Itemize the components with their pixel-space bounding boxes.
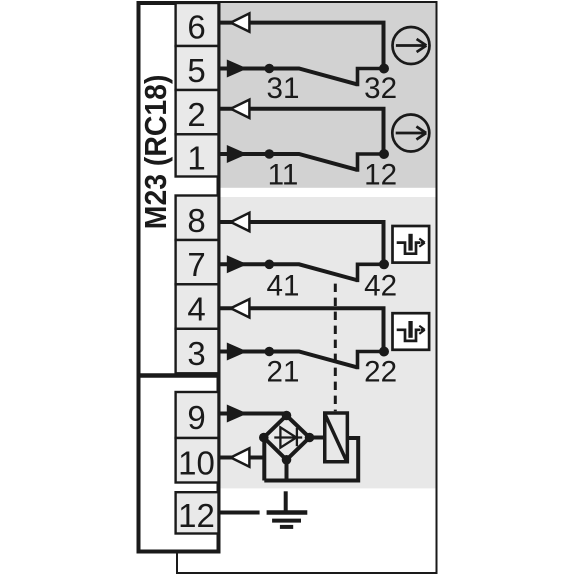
input arrow pin 7	[227, 255, 248, 273]
wire left branch pin10 to bottom rail	[262, 438, 266, 481]
pin box 4	[176, 284, 219, 329]
input arrow pin 9	[227, 405, 248, 423]
junction dot 32	[379, 64, 389, 74]
svg-text:M23 (RC18): M23 (RC18)	[138, 75, 173, 230]
svg-text:12: 12	[364, 159, 397, 192]
svg-text:31: 31	[267, 72, 300, 105]
wire rectifier bottom to rail	[285, 460, 289, 481]
guard-lock monitored symbol (upper pulse box)	[393, 226, 430, 263]
input arrow pin 3	[227, 343, 248, 361]
wire rectifier right to solenoid	[310, 436, 325, 440]
bottom rail to solenoid return	[264, 438, 358, 481]
wire pin6 feed to contact 32 terminal	[221, 23, 384, 69]
input arrow pin 1	[227, 145, 248, 163]
svg-text:6: 6	[187, 9, 205, 46]
pivot dot 21	[265, 347, 275, 357]
pin box 5	[176, 46, 219, 90]
pin box 2	[176, 90, 219, 134]
svg-text:5: 5	[187, 52, 205, 89]
actuator symbol circle-arrow (top)	[393, 27, 430, 64]
pin box 3	[176, 329, 219, 374]
pivot dot 41	[265, 260, 275, 270]
fixed terminal contact 42	[358, 264, 384, 282]
output arrow pin 6	[231, 13, 250, 31]
fixed terminal contact 22	[358, 352, 384, 370]
svg-text:1: 1	[187, 139, 205, 176]
junction dot rectifier left	[259, 433, 269, 443]
junction dot rectifier bottom	[282, 455, 292, 465]
junction dot 42	[379, 259, 389, 269]
wire pin8 feed to contact 42 terminal	[221, 222, 384, 264]
wire pin9 to rectifier	[221, 412, 287, 416]
rectifier diamond	[264, 416, 310, 460]
pin box 8	[176, 196, 219, 241]
guard-lock monitored symbol (lower pulse box)	[393, 313, 430, 350]
input arrow pin 5	[227, 60, 248, 78]
wire pin7 with moving blade 41-42	[221, 264, 357, 280]
svg-text:11: 11	[268, 159, 299, 192]
wire pin2 feed to contact 12 terminal	[221, 109, 384, 154]
wire pin3 with moving blade 21-22	[221, 352, 357, 368]
fixed terminal contact 12	[358, 154, 384, 172]
junction dot 22	[379, 347, 389, 357]
wire pin5 with moving blade 31-32	[221, 69, 357, 85]
svg-text:21: 21	[267, 356, 300, 389]
svg-text:41: 41	[267, 270, 300, 303]
pin box 12	[176, 492, 219, 533]
wire pin12	[221, 511, 260, 515]
svg-text:42: 42	[364, 270, 397, 303]
output arrow pin 2	[231, 100, 250, 118]
svg-text:7: 7	[187, 246, 205, 283]
ground symbol	[267, 491, 308, 527]
actuator symbol circle-arrow (second)	[392, 115, 429, 152]
junction dot rectifier right	[305, 433, 315, 443]
junction dot 12	[379, 149, 389, 159]
svg-text:32: 32	[364, 72, 397, 105]
diode inside rectifier	[274, 427, 302, 447]
pin box 1	[176, 134, 219, 176]
connector housing M23	[139, 3, 219, 552]
mechanical link (dashed)	[334, 284, 337, 412]
svg-text:8: 8	[187, 202, 205, 239]
shaded zone: guard-locking contacts (light gray)	[220, 197, 436, 488]
pivot dot 31	[265, 64, 275, 74]
solenoid coil	[325, 413, 348, 462]
output arrow pin 8	[231, 213, 250, 231]
connector housing divider	[137, 373, 221, 377]
wire pin4 feed to contact 22 terminal	[221, 308, 384, 351]
svg-text:3: 3	[187, 335, 205, 372]
pin box 7	[176, 240, 219, 284]
pivot dot 11	[265, 149, 275, 159]
junction dot rectifier top	[282, 411, 292, 421]
svg-text:4: 4	[187, 291, 205, 328]
device outline frame	[177, 2, 437, 573]
fixed terminal contact 32	[358, 69, 384, 87]
svg-text:10: 10	[178, 444, 215, 481]
wire pin1 with moving blade 11-12	[221, 154, 357, 170]
svg-text:9: 9	[187, 399, 205, 436]
wire pin10	[221, 456, 265, 460]
output arrow pin 4	[231, 299, 250, 317]
svg-text:2: 2	[187, 96, 205, 133]
output arrow pin 10	[231, 448, 250, 466]
shaded zone: door-monitoring contacts (dark gray)	[220, 2, 436, 188]
svg-text:12: 12	[178, 497, 215, 534]
pin box 10	[176, 438, 219, 483]
svg-text:22: 22	[364, 356, 397, 389]
pin box 6	[176, 3, 219, 46]
pin box 9	[176, 392, 219, 438]
solenoid diagonal	[325, 415, 346, 461]
